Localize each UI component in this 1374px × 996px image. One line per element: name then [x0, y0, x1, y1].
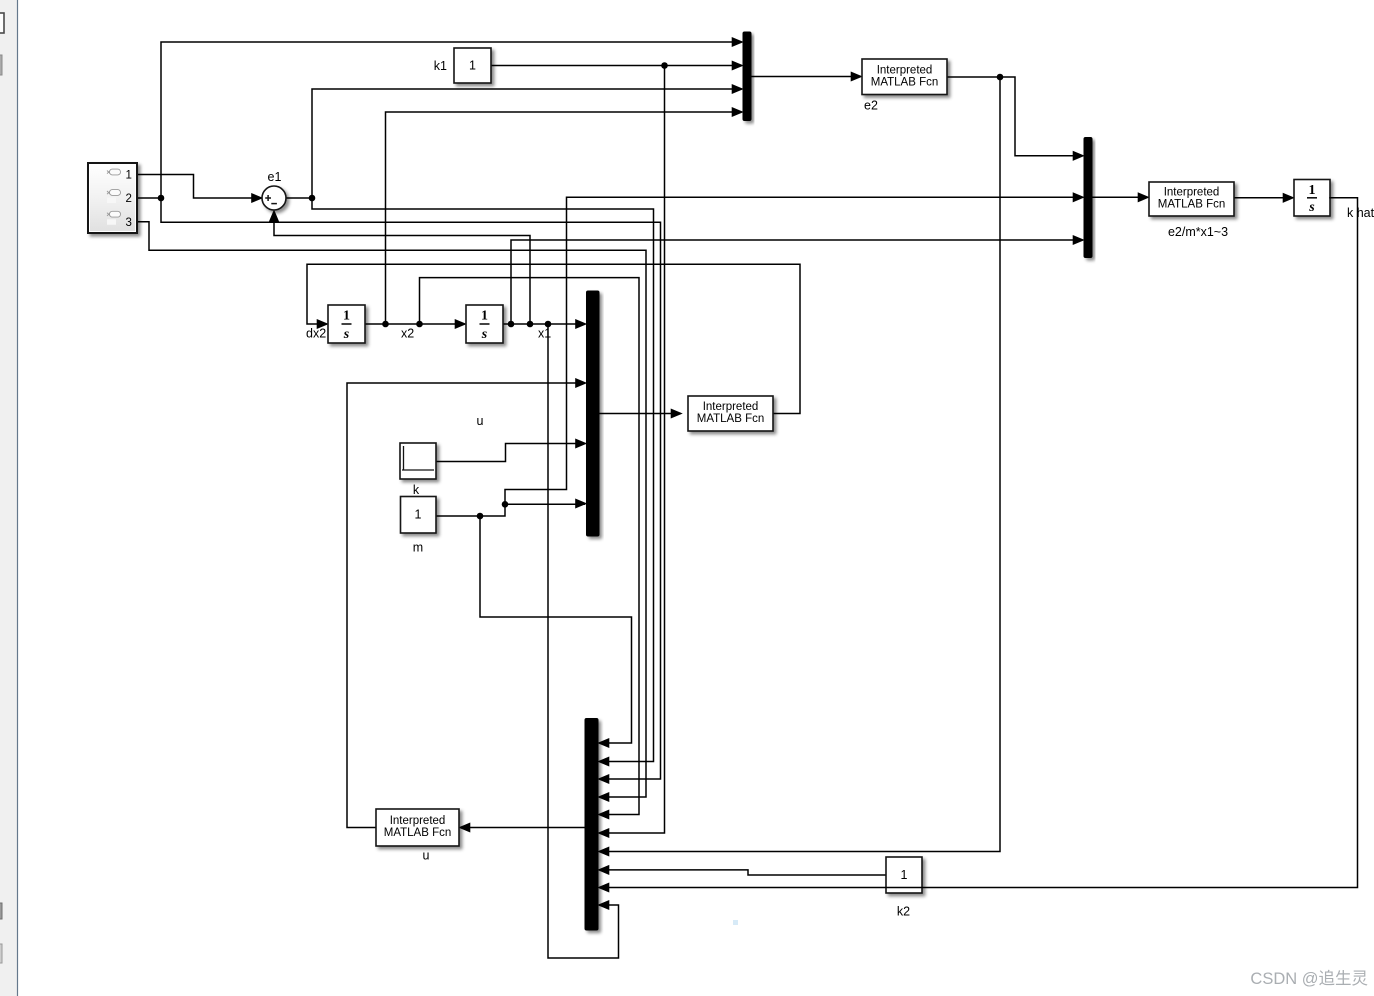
- fcn e2 block: [862, 59, 947, 95]
- label k1: [434, 59, 447, 73]
- svg-text:u: u: [477, 414, 484, 428]
- svg-text:x1: x1: [538, 327, 551, 341]
- svg-text:Interpreted: Interpreted: [390, 815, 446, 827]
- fcn e2mx block: [1149, 182, 1234, 216]
- svg-text:u: u: [423, 849, 430, 863]
- sum block e1: [262, 186, 286, 210]
- wire mux M1 output to fcn e2: [751, 72, 862, 81]
- svg-text:Interpreted: Interpreted: [703, 401, 759, 413]
- wire bottom mux output to fcn u: [459, 823, 585, 832]
- integrator dx2: [328, 305, 365, 343]
- wire x2 down to bottom mux input5: [420, 278, 640, 820]
- wire port3 to bottom mux input4: [137, 222, 646, 802]
- wire fcn e2 output: [947, 74, 1084, 161]
- wire sum output to junction: [286, 195, 316, 202]
- wire x1 line to mux M3 input1: [503, 319, 587, 328]
- label e2/m*x1~3: [1168, 225, 1228, 239]
- svg-text:MATLAB Fcn: MATLAB Fcn: [871, 76, 939, 88]
- svg-text:CSDN @追生灵: CSDN @追生灵: [1250, 969, 1368, 988]
- label e2: [864, 99, 878, 113]
- fcn u block: [376, 809, 459, 846]
- svg-text:1: 1: [125, 170, 131, 182]
- mux M2: [1084, 138, 1092, 258]
- wire u to mux M3 input2: [347, 378, 587, 827]
- toolbar icon bottom2: [0, 944, 2, 963]
- wire k1 down to bottom mux input6: [598, 66, 665, 838]
- step block k: [400, 443, 436, 479]
- wire mux M3 output to fcn dx2: [599, 409, 682, 418]
- integrator khat: [1294, 180, 1330, 217]
- svg-text:MATLAB Fcn: MATLAB Fcn: [384, 827, 452, 839]
- wire k to mux M3 input3: [436, 439, 587, 462]
- constant m: [401, 497, 437, 534]
- wire m down to bottom mux input1: [480, 516, 632, 748]
- svg-text:dx2: dx2: [306, 327, 326, 341]
- wire mux M2 output to fcn e2mx: [1092, 193, 1149, 202]
- wire e2 down to bottom mux input7: [598, 77, 1000, 856]
- wire k2 to bottom mux input8: [598, 865, 886, 875]
- svg-text:k: k: [413, 483, 420, 497]
- svg-text:m: m: [413, 541, 423, 555]
- toolbar icon top1: [0, 13, 4, 33]
- svg-text:MATLAB Fcn: MATLAB Fcn: [1158, 199, 1226, 211]
- svg-text:k2: k2: [897, 905, 910, 919]
- svg-text:1: 1: [1309, 183, 1316, 198]
- wire dx2 to integrator x2: [365, 319, 466, 328]
- svg-text:e2: e2: [864, 99, 878, 113]
- wire m to mux M3 input4: [436, 499, 587, 519]
- svg-text:x2: x2: [401, 327, 414, 341]
- label e1: [268, 170, 282, 184]
- wire x2 up to mux M1 input4: [386, 107, 744, 324]
- svg-text:1: 1: [901, 868, 908, 882]
- label x1: [538, 327, 551, 341]
- svg-text:k hat e: k hat e: [1347, 206, 1374, 220]
- svg-text:1: 1: [481, 309, 488, 324]
- fcn dx2 block: [688, 396, 773, 431]
- toolbar icon top2: [0, 55, 2, 75]
- constant k1: [454, 48, 491, 83]
- svg-text:MATLAB Fcn: MATLAB Fcn: [697, 413, 765, 425]
- svg-text:1: 1: [469, 59, 476, 73]
- svg-text:e2/m*x1~3: e2/m*x1~3: [1168, 225, 1228, 239]
- label dx2: [306, 327, 326, 341]
- svg-text:1: 1: [343, 309, 350, 324]
- mux M1: [743, 32, 751, 121]
- mux M3: [587, 291, 600, 536]
- label k hat: [1347, 206, 1374, 220]
- wire fcn dx2 output loop to integrator dx2: [307, 264, 800, 413]
- wire x1 to mux M2 input3: [511, 235, 1084, 324]
- svg-text:3: 3: [125, 217, 131, 229]
- wire port1 to sum: [137, 175, 263, 203]
- wire m to mux M2 input2: [505, 193, 1084, 505]
- wire x1 feedback to sum minus: [269, 210, 533, 327]
- label k: [413, 483, 420, 497]
- constant k2: [886, 857, 922, 893]
- svg-text:Interpreted: Interpreted: [877, 64, 933, 76]
- svg-text:Interpreted: Interpreted: [1164, 187, 1220, 199]
- label x2: [401, 327, 414, 341]
- svg-text:1: 1: [415, 508, 422, 522]
- blue speck: [733, 920, 738, 925]
- wire x1 down to bottom mux input10: [548, 324, 619, 958]
- wire e1 up to mux M1 input3: [312, 84, 743, 198]
- label k2: [897, 905, 910, 919]
- svg-text:s: s: [343, 327, 350, 342]
- source block with 3 output ports: [88, 163, 137, 233]
- wire khat output down to bottom mux input9: [598, 198, 1358, 892]
- label u floating: [477, 414, 484, 428]
- svg-text:2: 2: [125, 193, 131, 205]
- svg-text:e1: e1: [268, 170, 282, 184]
- wire port2 down right to bottom mux input3: [161, 198, 661, 784]
- mux M4 bottom: [585, 719, 598, 931]
- svg-text:k1: k1: [434, 59, 447, 73]
- wire k1 to mux M1 input2: [491, 61, 743, 70]
- left toolbar strip: [0, 0, 18, 996]
- watermark CSDN: [1250, 969, 1368, 988]
- integrator x2: [466, 305, 503, 343]
- wire e1 down to bottom mux input2: [312, 198, 654, 766]
- label u: [423, 849, 430, 863]
- svg-text:s: s: [481, 327, 488, 342]
- label m: [413, 541, 423, 555]
- wire fcn e2mx to integrator khat: [1234, 193, 1294, 202]
- toolbar icon bottom1: [0, 903, 2, 919]
- wire port2 to junction: [137, 195, 164, 202]
- svg-text:s: s: [1308, 200, 1315, 215]
- wire port2 up to mux M1 input1: [161, 37, 743, 198]
